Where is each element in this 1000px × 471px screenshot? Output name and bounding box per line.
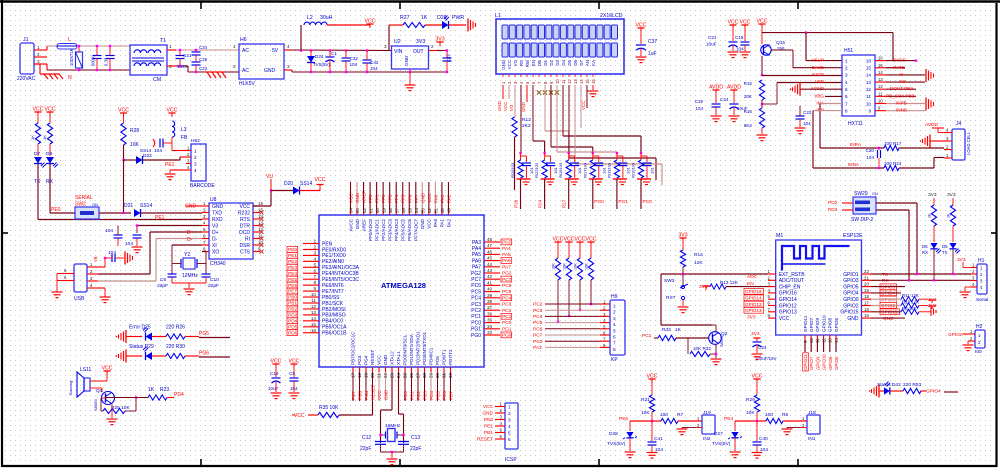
svg-text:C42: C42	[370, 60, 379, 65]
svg-text:PD7/T2: PD7/T2	[448, 349, 453, 365]
svg-text:PD2: PD2	[828, 200, 838, 206]
svg-text:2: 2	[37, 52, 40, 57]
svg-text:PG4: PG4	[364, 355, 369, 365]
svg-text:VCC: VCC	[740, 20, 751, 26]
svg-text:1: 1	[233, 44, 236, 49]
svg-text:D28: D28	[609, 431, 618, 437]
svg-text:12: 12	[567, 79, 572, 84]
svg-text:PWR: PWR	[452, 15, 464, 21]
svg-text:11: 11	[878, 91, 883, 96]
svg-text:12K: 12K	[694, 260, 703, 266]
svg-text:GPIO8: GPIO8	[828, 318, 833, 332]
svg-text:PC3: PC3	[502, 302, 512, 308]
svg-text:5V: 5V	[272, 48, 279, 54]
svg-text:13: 13	[866, 80, 872, 85]
svg-text:PD4: PD4	[174, 392, 184, 398]
svg-text:VCC: VCC	[507, 60, 512, 69]
svg-text:220 R53: 220 R53	[903, 382, 921, 388]
svg-text:33: 33	[487, 330, 493, 335]
svg-text:PF5: PF5	[401, 194, 406, 203]
svg-text:RI10103: RI10103	[631, 162, 636, 178]
svg-text:PG2: PG2	[502, 271, 512, 277]
svg-text:16: 16	[258, 201, 263, 206]
svg-text:14: 14	[866, 73, 872, 78]
svg-text:GPIO9: GPIO9	[815, 356, 820, 370]
svg-text:20: 20	[864, 282, 869, 287]
svg-text:47: 47	[487, 243, 493, 248]
svg-text:BARCODE: BARCODE	[190, 183, 215, 189]
svg-text:D+: D+	[187, 230, 194, 236]
svg-text:22pF: 22pF	[410, 446, 421, 452]
svg-text:R13 12K: R13 12K	[720, 280, 739, 285]
svg-text:53: 53	[421, 208, 426, 213]
svg-text:8: 8	[313, 280, 316, 285]
svg-text:3V3: 3V3	[747, 315, 756, 321]
svg-text:PC0: PC0	[643, 199, 653, 205]
svg-text:U2: U2	[394, 39, 401, 45]
svg-text:GPIO16: GPIO16	[745, 289, 762, 294]
svg-text:L2: L2	[307, 15, 313, 21]
svg-text:GPIO7: GPIO7	[809, 318, 814, 332]
svg-text:PC2: PC2	[471, 308, 481, 314]
svg-text:PG1: PG1	[471, 327, 481, 333]
svg-text:TX: TX	[882, 272, 889, 278]
svg-text:PG6: PG6	[199, 351, 209, 357]
svg-text:AVDD: AVDD	[709, 85, 723, 91]
svg-text:1K: 1K	[42, 135, 47, 140]
svg-text:Serial: Serial	[976, 297, 988, 303]
svg-text:PC1: PC1	[642, 333, 652, 339]
svg-text:8: 8	[845, 108, 848, 113]
svg-text:2X16LCD: 2X16LCD	[600, 13, 623, 19]
svg-text:21: 21	[864, 275, 869, 280]
svg-text:7: 7	[313, 274, 316, 279]
svg-text:PA0: PA0	[433, 194, 438, 203]
svg-text:VCC: VCC	[294, 413, 305, 419]
svg-text:C41: C41	[654, 436, 663, 442]
svg-text:VO: VO	[509, 104, 514, 111]
svg-text:VCC: VCC	[365, 19, 376, 25]
svg-text:ON: ON	[92, 203, 98, 207]
svg-text:GPIO0: GPIO0	[843, 297, 859, 303]
svg-text:9: 9	[868, 108, 871, 113]
svg-text:22pF: 22pF	[157, 283, 168, 289]
svg-text:TX: TX	[942, 250, 948, 255]
svg-text:14: 14	[311, 316, 317, 321]
svg-text:P24: P24	[538, 199, 543, 208]
svg-text:3: 3	[613, 316, 616, 321]
svg-text:RST: RST	[666, 295, 676, 301]
svg-text:1: 1	[845, 58, 848, 63]
svg-text:D4: D4	[561, 59, 566, 65]
svg-text:VB: VB	[93, 256, 98, 262]
svg-text:16: 16	[866, 58, 872, 63]
svg-text:22pF: 22pF	[208, 283, 219, 289]
svg-text:104: 104	[736, 47, 744, 52]
svg-text:LS11: LS11	[80, 367, 92, 373]
svg-text:Status D42: Status D42	[877, 382, 901, 388]
svg-text:PE1: PE1	[165, 162, 175, 168]
svg-text:PF5/ADC5: PF5/ADC5	[401, 219, 406, 241]
svg-text:51: 51	[434, 208, 439, 213]
svg-text:CH340: CH340	[210, 261, 226, 267]
svg-text:PD6: PD6	[442, 391, 447, 400]
svg-text:XTAL1: XTAL1	[396, 351, 401, 365]
svg-text:VCC: VCC	[239, 204, 250, 210]
svg-text:43: 43	[487, 268, 493, 273]
svg-text:220VAC: 220VAC	[17, 76, 36, 82]
svg-text:TVS(5V): TVS(5V)	[313, 62, 330, 67]
svg-text:11: 11	[561, 79, 566, 84]
svg-text:5: 5	[508, 430, 511, 435]
svg-text:10D471K: 10D471K	[69, 48, 74, 66]
svg-text:7: 7	[845, 101, 848, 106]
svg-text:100: 100	[765, 412, 773, 418]
svg-text:PB6/OC1B: PB6/OC1B	[322, 331, 347, 337]
svg-text:GND: GND	[212, 204, 224, 210]
svg-text:XTAL2: XTAL2	[390, 351, 395, 365]
svg-text:11: 11	[311, 298, 316, 303]
svg-text:17: 17	[864, 301, 869, 306]
svg-text:22: 22	[864, 269, 869, 274]
svg-text:GND: GND	[355, 218, 360, 229]
svg-text:PC3: PC3	[471, 302, 481, 308]
svg-text:Y2: Y2	[184, 252, 190, 258]
svg-text:PE4: PE4	[724, 416, 733, 422]
svg-text:VO: VO	[513, 59, 518, 66]
svg-text:RESET: RESET	[370, 349, 375, 365]
svg-text:10K: 10K	[574, 263, 578, 270]
svg-text:2: 2	[508, 411, 511, 416]
svg-text:2: 2	[431, 44, 434, 49]
svg-text:PF4/ADC4: PF4/ADC4	[394, 219, 399, 241]
svg-text:VCC: VCC	[575, 237, 586, 243]
svg-text:10K: 10K	[585, 263, 589, 270]
svg-text:GPIO13: GPIO13	[779, 310, 797, 316]
svg-text:VCC: VCC	[427, 218, 432, 228]
svg-text:VSUP: VSUP	[811, 58, 824, 63]
svg-text:5: 5	[313, 262, 316, 267]
svg-text:C21: C21	[708, 35, 717, 40]
svg-text:KP: KP	[611, 357, 618, 363]
svg-text:PF1: PF1	[375, 194, 380, 203]
svg-text:41: 41	[487, 280, 493, 285]
svg-text:PA0: PA0	[433, 219, 438, 228]
svg-text:VCC: VCC	[33, 107, 44, 113]
svg-text:PF3: PF3	[388, 194, 393, 203]
svg-text:52: 52	[427, 208, 432, 213]
svg-text:680K: 680K	[91, 56, 96, 66]
svg-text:PA2: PA2	[446, 194, 451, 203]
svg-text:D-: D-	[187, 237, 193, 243]
svg-text:GND: GND	[264, 68, 276, 74]
svg-text:XO: XO	[212, 249, 219, 255]
svg-text:U8: U8	[210, 197, 217, 203]
svg-text:3V3: 3V3	[699, 284, 708, 290]
svg-text:3: 3	[194, 161, 197, 166]
svg-text:PC2: PC2	[533, 302, 543, 308]
svg-text:4: 4	[845, 80, 848, 85]
svg-text:P27: P27	[562, 199, 567, 208]
svg-text:H52: H52	[191, 138, 200, 144]
svg-text:PC0: PC0	[502, 320, 512, 326]
svg-text:AREF: AREF	[361, 219, 366, 231]
svg-text:61: 61	[368, 208, 373, 213]
svg-text:AVDD: AVDD	[812, 72, 825, 77]
svg-text:R31: R31	[641, 397, 650, 403]
svg-text:56: 56	[401, 208, 406, 213]
svg-text:VU: VU	[266, 174, 273, 180]
svg-text:PG5: PG5	[199, 331, 209, 337]
svg-text:3: 3	[313, 250, 316, 255]
svg-text:DOUT PB2: DOUT PB2	[890, 86, 913, 91]
svg-text:D8: D8	[46, 151, 52, 157]
svg-text:RW: RW	[525, 59, 530, 67]
svg-text:57: 57	[394, 208, 399, 213]
svg-text:10K: 10K	[130, 142, 140, 148]
svg-text:PG0: PG0	[471, 333, 481, 339]
svg-text:PF7: PF7	[414, 194, 419, 203]
svg-text:HX711: HX711	[848, 121, 863, 127]
svg-text:VFB: VFB	[815, 79, 824, 84]
svg-text:104: 104	[866, 155, 874, 160]
svg-text:R28: R28	[130, 128, 139, 134]
svg-text:GPIO14: GPIO14	[745, 296, 762, 301]
svg-text:3V3: 3V3	[751, 331, 760, 337]
svg-text:63: 63	[355, 208, 360, 213]
svg-text:VCC: VCC	[271, 359, 282, 365]
svg-text:PB1: PB1	[484, 430, 493, 436]
svg-text:XO: XO	[899, 79, 906, 84]
svg-text:55: 55	[407, 208, 412, 213]
svg-text:104: 104	[125, 241, 133, 247]
svg-text:PC3: PC3	[533, 308, 543, 314]
svg-text:C37: C37	[648, 39, 657, 45]
svg-text:R10 12K: R10 12K	[902, 300, 919, 305]
svg-text:PD4: PD4	[429, 391, 434, 400]
svg-text:3V3: 3V3	[435, 37, 444, 43]
svg-text:GND: GND	[521, 102, 526, 112]
svg-text:ICSP: ICSP	[505, 457, 517, 463]
svg-text:PC7: PC7	[471, 277, 481, 283]
svg-text:18: 18	[864, 294, 869, 299]
svg-text:AC: AC	[242, 48, 249, 54]
svg-text:3V3: 3V3	[928, 192, 937, 198]
svg-text:PG1: PG1	[502, 326, 512, 332]
svg-text:50: 50	[440, 208, 445, 213]
svg-text:0.33: 0.33	[104, 57, 109, 66]
svg-text:D5: D5	[942, 244, 948, 249]
svg-text:104: 104	[803, 121, 811, 126]
svg-text:PA7: PA7	[472, 265, 481, 271]
svg-text:AVDD: AVDD	[727, 85, 741, 91]
svg-text:GPIO4: GPIO4	[843, 291, 859, 297]
svg-text:D+: D+	[212, 230, 219, 236]
svg-text:CTS: CTS	[240, 249, 251, 255]
svg-text:PA1: PA1	[440, 194, 445, 203]
svg-text:C8: C8	[289, 371, 295, 376]
svg-text:PF2/ADC2: PF2/ADC2	[381, 219, 386, 241]
svg-text:PC4: PC4	[533, 314, 543, 320]
svg-text:H2: H2	[976, 324, 983, 330]
svg-text:PG3: PG3	[533, 339, 543, 345]
svg-text:C1: C1	[331, 51, 337, 56]
svg-text:SS14: SS14	[140, 148, 152, 153]
svg-text:104: 104	[154, 148, 162, 154]
svg-text:12: 12	[311, 304, 317, 309]
svg-text:2: 2	[194, 155, 197, 160]
svg-text:PA4: PA4	[502, 246, 511, 252]
svg-text:INNA: INNA	[848, 162, 860, 167]
svg-text:LOAD CELL: LOAD CELL	[966, 131, 971, 155]
svg-text:D1: D1	[543, 59, 548, 65]
svg-text:SERIAL: SERIAL	[75, 195, 93, 201]
svg-text:15: 15	[311, 322, 317, 327]
svg-text:36: 36	[487, 311, 493, 316]
svg-text:Buzzing: Buzzing	[68, 381, 73, 395]
svg-text:D2: D2	[549, 59, 554, 65]
svg-text:PE6: PE6	[619, 416, 628, 422]
svg-text:3V3: 3V3	[947, 192, 956, 198]
svg-text:RI19103: RI19103	[558, 162, 563, 178]
svg-text:35: 35	[487, 318, 493, 323]
svg-text:R25 10K: R25 10K	[111, 405, 130, 411]
svg-text:PE1: PE1	[484, 424, 493, 430]
svg-text:R232: R232	[238, 210, 250, 216]
svg-text:AC: AC	[242, 68, 249, 74]
svg-text:R14: R14	[694, 252, 703, 258]
svg-text:4: 4	[613, 322, 616, 327]
svg-text:10K: 10K	[746, 410, 755, 416]
svg-text:VCC: VCC	[427, 193, 432, 203]
svg-text:RX: RX	[882, 278, 889, 284]
svg-text:GPIO10: GPIO10	[822, 354, 827, 370]
svg-text:R15: R15	[744, 81, 753, 86]
svg-text:1: 1	[194, 148, 197, 153]
svg-text:RESET: RESET	[477, 437, 493, 443]
svg-text:AREF: AREF	[362, 191, 367, 203]
svg-text:14: 14	[878, 70, 883, 75]
svg-text:GPIO11: GPIO11	[803, 354, 808, 370]
svg-text:T1: T1	[160, 38, 166, 44]
svg-text:GND: GND	[482, 411, 493, 417]
svg-text:PD0: PD0	[403, 391, 408, 400]
svg-text:44: 44	[487, 262, 493, 267]
svg-text:Error D25: Error D25	[129, 325, 151, 331]
svg-text:GND: GND	[847, 316, 859, 322]
svg-text:PC6: PC6	[502, 283, 512, 289]
svg-text:PE1: PE1	[155, 215, 165, 221]
svg-text:10K R32: 10K R32	[693, 346, 711, 351]
svg-text:PD2/INT2/RXD1: PD2/INT2/RXD1	[416, 331, 421, 365]
svg-text:VCC: VCC	[377, 390, 382, 400]
svg-text:5: 5	[845, 87, 848, 92]
svg-text:C12: C12	[362, 435, 371, 441]
svg-text:VCC: VCC	[289, 359, 300, 365]
svg-text:RX: RX	[922, 250, 928, 255]
svg-text:D6: D6	[922, 244, 928, 249]
svg-text:SW29: SW29	[854, 191, 868, 197]
svg-text:DCD: DCD	[239, 230, 250, 236]
svg-text:GND: GND	[883, 316, 894, 322]
svg-text:C23: C23	[758, 345, 767, 350]
svg-text:3V3: 3V3	[416, 39, 425, 45]
svg-text:RI22103: RI22103	[534, 162, 539, 178]
svg-text:39: 39	[487, 293, 493, 298]
svg-text:2: 2	[313, 244, 316, 249]
svg-text:PD2: PD2	[416, 391, 421, 400]
svg-text:8K2: 8K2	[744, 123, 753, 128]
svg-text:D21: D21	[124, 203, 133, 209]
svg-text:PD3: PD3	[828, 207, 838, 213]
svg-text:INRA: INRA	[850, 142, 862, 147]
svg-text:FB: FB	[181, 135, 188, 141]
svg-text:PC5: PC5	[533, 320, 543, 326]
svg-text:42: 42	[487, 274, 493, 279]
svg-text:TVS(5V): TVS(5V)	[607, 441, 626, 447]
svg-text:C10: C10	[210, 277, 219, 283]
svg-text:2: 2	[845, 66, 848, 71]
svg-text:AVDD: AVDD	[925, 122, 939, 128]
svg-text:N: N	[68, 75, 72, 81]
svg-text:DSR: DSR	[239, 243, 250, 249]
svg-text:15: 15	[878, 63, 883, 68]
svg-text:D22: D22	[143, 153, 152, 159]
svg-text:13: 13	[878, 77, 883, 82]
svg-text:VCC: VCC	[315, 177, 326, 183]
svg-text:EN: EN	[531, 60, 536, 66]
svg-text:VCC: VCC	[553, 237, 564, 243]
svg-text:D5: D5	[567, 59, 572, 65]
svg-text:PG4: PG4	[364, 390, 369, 400]
svg-text:VCC: VCC	[581, 101, 586, 110]
svg-text:13: 13	[311, 310, 317, 315]
svg-text:PG0: PG0	[594, 199, 604, 205]
svg-text:GND: GND	[355, 192, 360, 203]
svg-text:R11 12K: R11 12K	[902, 293, 919, 298]
svg-text:20K: 20K	[744, 94, 753, 99]
svg-text:GPIO10: GPIO10	[821, 315, 826, 332]
svg-text:ON: ON	[872, 192, 878, 196]
svg-text:PE0: PE0	[484, 417, 493, 423]
svg-text:PC5: PC5	[502, 289, 512, 295]
svg-text:PD7: PD7	[449, 391, 454, 400]
svg-text:R35 10K: R35 10K	[319, 405, 339, 411]
svg-text:C33: C33	[446, 54, 451, 62]
svg-text:VCC: VCC	[118, 108, 129, 114]
svg-text:PD1/INT1/SDA: PD1/INT1/SDA	[409, 333, 414, 365]
svg-text:PF0: PF0	[368, 194, 373, 203]
svg-text:D6: D6	[573, 59, 578, 65]
svg-text:PG1: PG1	[618, 199, 628, 205]
svg-text:64: 64	[349, 208, 354, 213]
svg-text:100 R24: 100 R24	[884, 161, 902, 166]
svg-text:L1: L1	[495, 13, 501, 19]
svg-text:SS14: SS14	[300, 181, 312, 187]
svg-text:10K: 10K	[563, 263, 567, 270]
svg-text:AN: AN	[585, 60, 590, 66]
svg-text:TVS(5V): TVS(5V)	[712, 441, 731, 447]
svg-text:1K: 1K	[148, 387, 155, 393]
svg-text:2: 2	[613, 310, 616, 315]
svg-text:3: 3	[845, 73, 848, 78]
svg-text:49: 49	[447, 208, 452, 213]
svg-text:4: 4	[313, 256, 316, 261]
svg-text:I00: I00	[975, 349, 982, 355]
svg-text:ADC: ADC	[747, 274, 758, 280]
svg-text:SS14: SS14	[140, 203, 152, 209]
svg-text:SW3: SW3	[664, 278, 675, 284]
